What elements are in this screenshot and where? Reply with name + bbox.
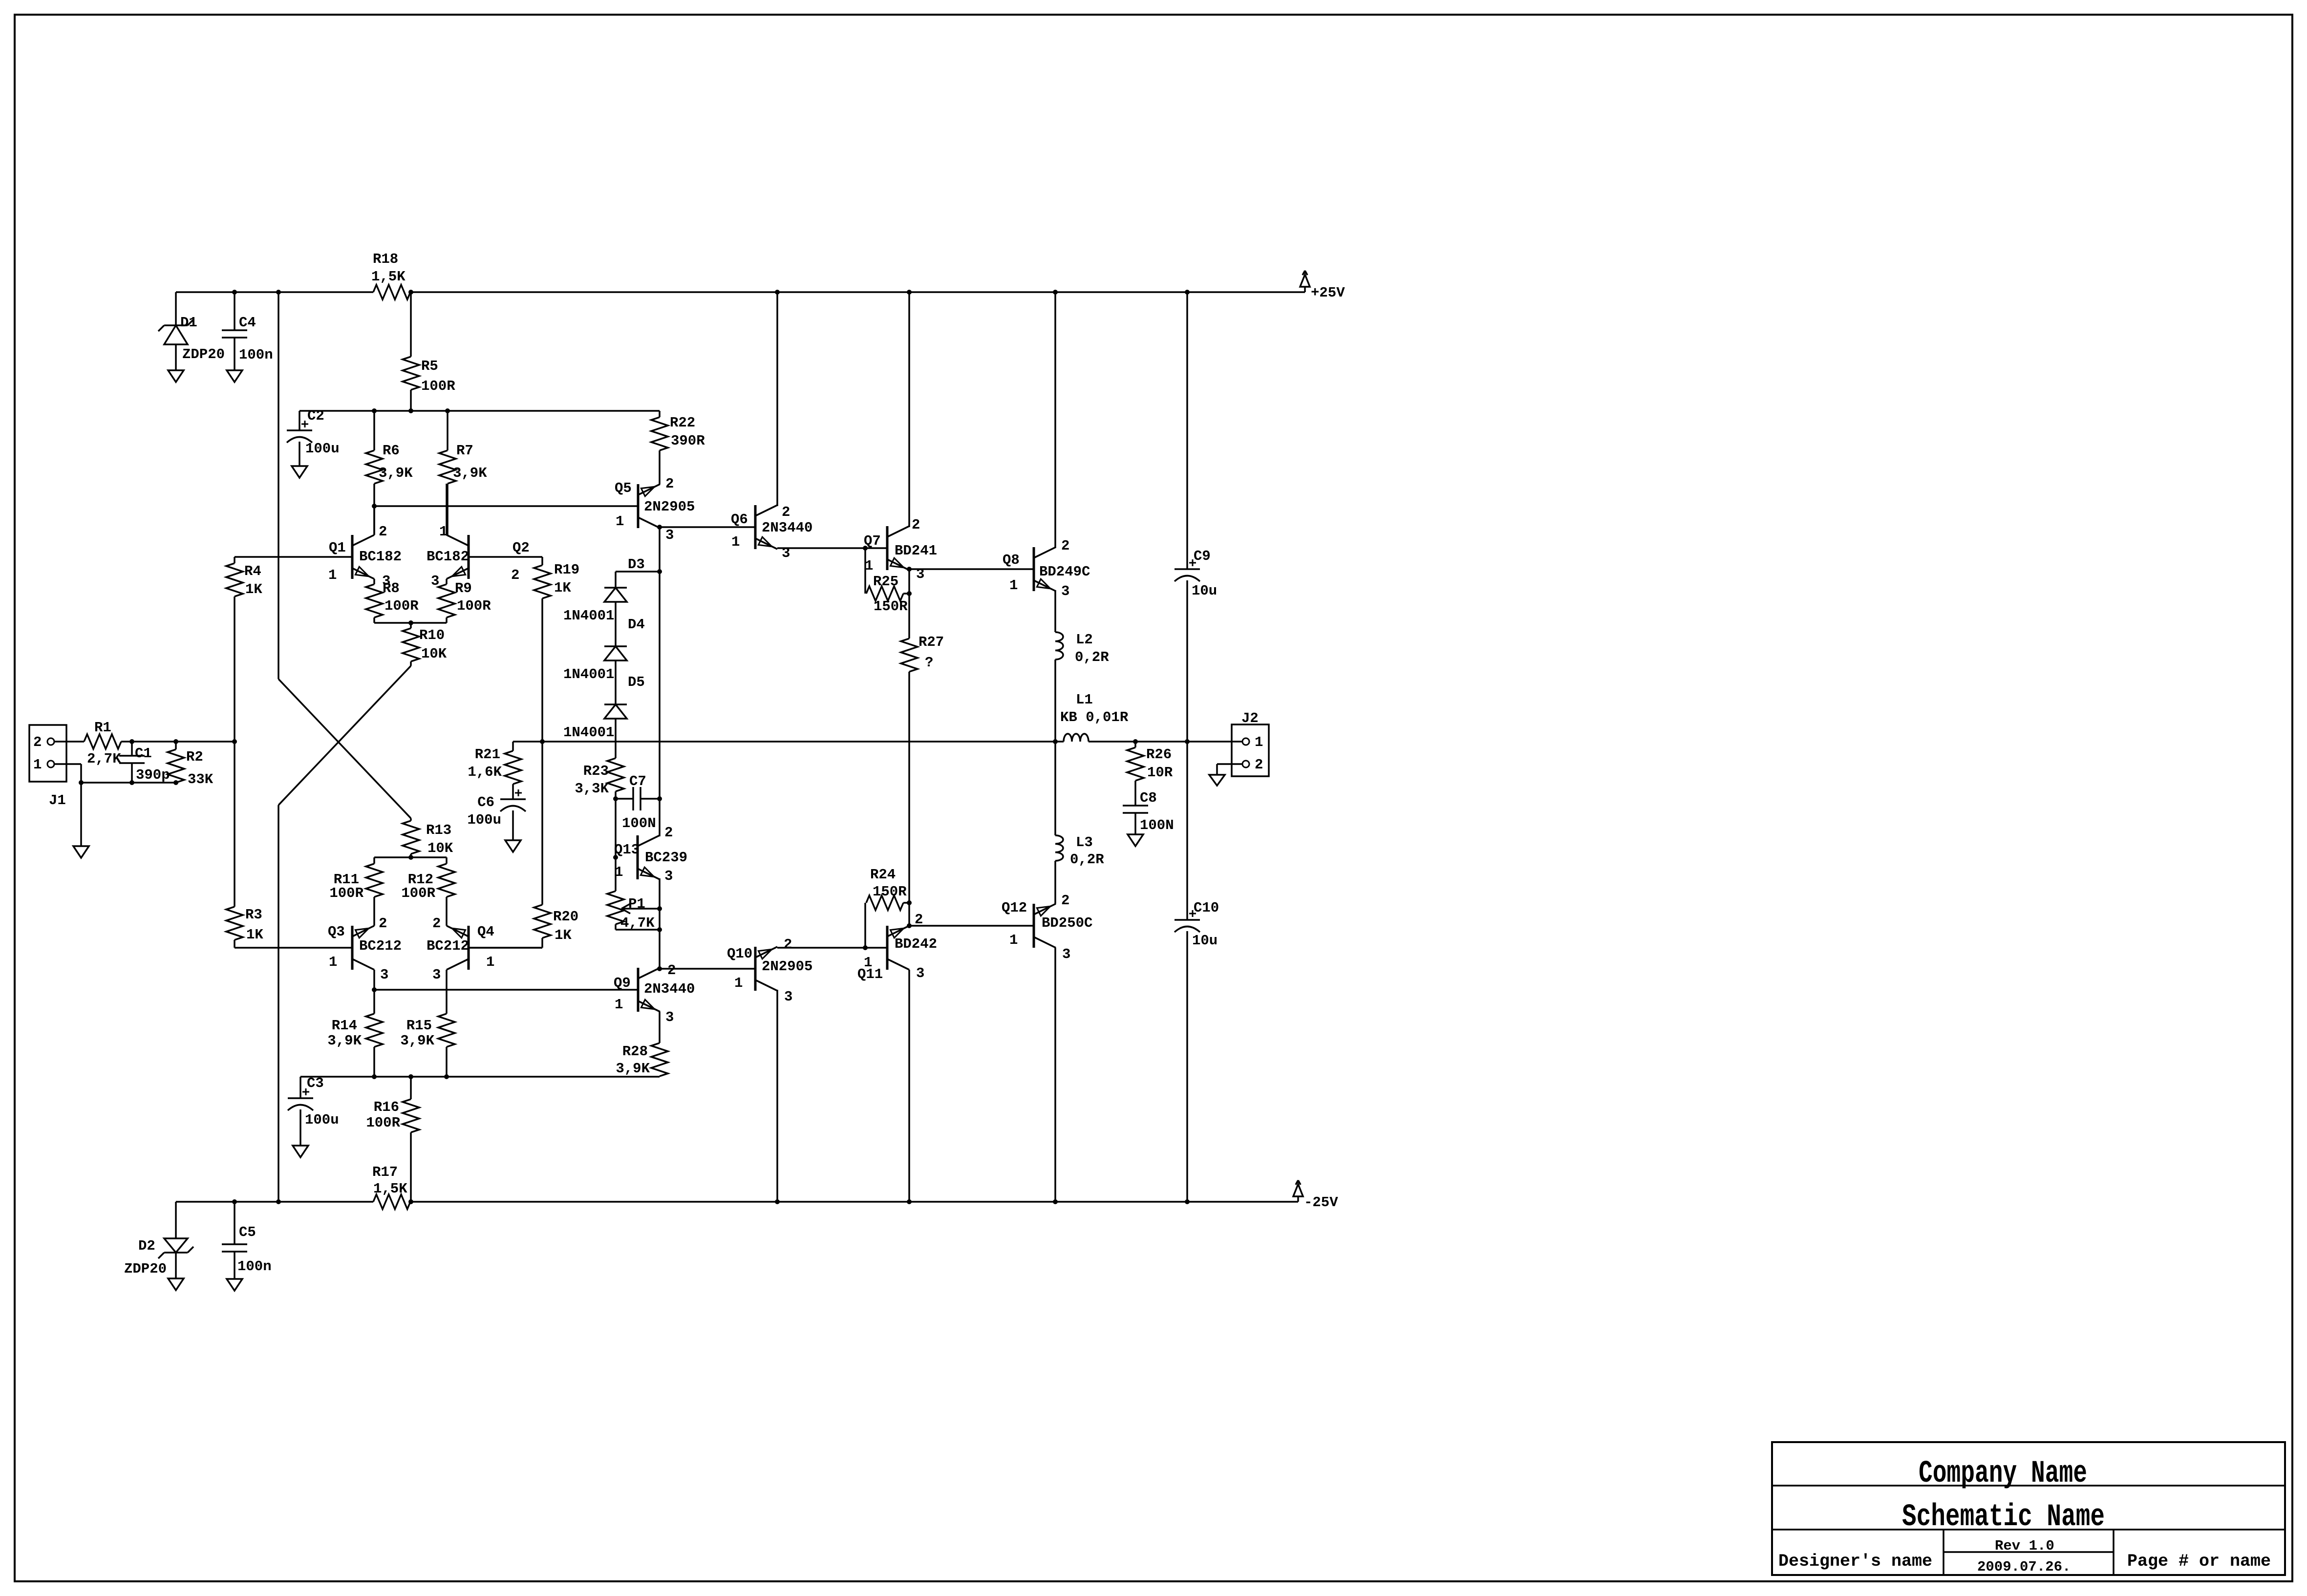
svg-text:1: 1 bbox=[1009, 932, 1018, 948]
svg-text:R28: R28 bbox=[622, 1043, 648, 1060]
svg-text:100N: 100N bbox=[1140, 817, 1174, 833]
transistor Q1 BC182 bbox=[328, 524, 402, 589]
title block frame bbox=[1772, 1442, 2285, 1575]
wire Q5 base bbox=[374, 505, 638, 507]
svg-text:R25: R25 bbox=[873, 574, 898, 590]
svg-text:2: 2 bbox=[1255, 757, 1263, 773]
resistor R22 390R bbox=[651, 411, 705, 484]
wire J1 ground lead bbox=[80, 783, 82, 846]
svg-text:3: 3 bbox=[432, 967, 441, 983]
svg-text:Q1: Q1 bbox=[329, 540, 346, 556]
svg-text:R23: R23 bbox=[583, 763, 609, 779]
wire J2 pin2 ground bbox=[1217, 764, 1242, 775]
ground D2 bbox=[168, 1278, 184, 1290]
svg-text:1: 1 bbox=[615, 997, 623, 1013]
svg-text:3,9K: 3,9K bbox=[453, 465, 487, 481]
svg-text:D5: D5 bbox=[628, 674, 645, 690]
svg-text:BC182: BC182 bbox=[427, 549, 469, 565]
wire output node bbox=[513, 741, 1242, 743]
svg-text:2: 2 bbox=[667, 962, 676, 979]
title date bbox=[1977, 1559, 2071, 1575]
transistor Q5 2N2905 bbox=[615, 476, 695, 543]
wire D4-D5 bbox=[615, 660, 617, 704]
svg-text:1: 1 bbox=[33, 757, 42, 773]
transistor Q2 BC182 bbox=[427, 524, 530, 589]
svg-text:1N4001: 1N4001 bbox=[563, 724, 614, 741]
transistor Q3 BC212 bbox=[328, 915, 402, 983]
svg-text:1K: 1K bbox=[555, 927, 572, 943]
diode D1 ZDP20 bbox=[158, 315, 225, 362]
svg-text:3,9K: 3,9K bbox=[379, 465, 413, 481]
wire Q1 collector lead bbox=[373, 506, 375, 535]
svg-text:2N3440: 2N3440 bbox=[762, 520, 812, 536]
svg-text:R8: R8 bbox=[383, 580, 400, 596]
wire L3 to Q12 emitter bbox=[1054, 861, 1056, 904]
svg-text:ZDP20: ZDP20 bbox=[182, 346, 225, 362]
svg-text:Company Name: Company Name bbox=[1919, 1456, 2087, 1491]
svg-text:2N2905: 2N2905 bbox=[762, 958, 812, 975]
resistor R16 100R bbox=[366, 1077, 419, 1202]
svg-text:390R: 390R bbox=[671, 433, 705, 449]
inductor L1 KB 0,01R bbox=[1060, 692, 1129, 742]
svg-text:100R: 100R bbox=[401, 885, 435, 901]
svg-text:100R: 100R bbox=[421, 378, 455, 394]
svg-text:BC182: BC182 bbox=[359, 549, 402, 565]
wire x570 crossing to -25V rail bbox=[278, 805, 279, 1202]
svg-text:C1: C1 bbox=[135, 745, 152, 762]
wire Q13 collector lead bbox=[659, 799, 661, 836]
svg-text:C10: C10 bbox=[1194, 900, 1219, 916]
svg-text:3,3K: 3,3K bbox=[575, 781, 609, 797]
capacitor C9 10u bbox=[1175, 292, 1217, 742]
svg-text:R21: R21 bbox=[475, 746, 500, 763]
svg-text:-25V: -25V bbox=[1304, 1194, 1338, 1211]
svg-text:2: 2 bbox=[664, 825, 673, 841]
node Q5 base tap bbox=[372, 504, 377, 509]
svg-text:4,7K: 4,7K bbox=[620, 915, 655, 931]
svg-text:R15: R15 bbox=[406, 1018, 432, 1034]
capacitor C7 100N bbox=[616, 773, 662, 831]
ground C4 bbox=[227, 370, 242, 382]
wire P1 wiper bbox=[621, 904, 662, 914]
wire Q6 emitter to Q7 bbox=[777, 546, 887, 551]
resistor R23 3,3K bbox=[575, 758, 624, 799]
svg-text:Q12: Q12 bbox=[1002, 900, 1027, 916]
svg-text:0,2R: 0,2R bbox=[1070, 851, 1104, 868]
capacitor C1 390p bbox=[119, 742, 170, 783]
node Q11 emitter bbox=[907, 923, 1034, 928]
svg-text:L2: L2 bbox=[1076, 632, 1093, 648]
inductor L2 0,2R bbox=[1055, 632, 1109, 665]
svg-text:Q7: Q7 bbox=[864, 533, 881, 549]
transistor Q7 BD241 bbox=[864, 517, 937, 582]
wire R3 to Q3 base bbox=[235, 947, 352, 949]
svg-text:1: 1 bbox=[486, 954, 494, 970]
svg-text:100R: 100R bbox=[329, 885, 363, 901]
title page bbox=[2127, 1552, 2271, 1571]
svg-text:BD241: BD241 bbox=[895, 543, 937, 559]
wire Q11 collector bbox=[908, 970, 910, 1202]
svg-text:3: 3 bbox=[784, 989, 792, 1005]
svg-text:C5: C5 bbox=[239, 1224, 256, 1240]
ground J2 bbox=[1209, 775, 1225, 786]
wire Q3 collector to Q9 base bbox=[374, 989, 638, 991]
svg-text:2N2905: 2N2905 bbox=[644, 499, 695, 515]
svg-text:3: 3 bbox=[916, 965, 924, 981]
ground C8 bbox=[1128, 834, 1143, 846]
wire Q13 base lead bbox=[613, 799, 618, 860]
svg-text:100n: 100n bbox=[237, 1258, 272, 1275]
svg-text:2009.07.26.: 2009.07.26. bbox=[1977, 1559, 2071, 1575]
svg-text:2: 2 bbox=[432, 915, 441, 932]
svg-text:Page # or name: Page # or name bbox=[2127, 1552, 2271, 1571]
resistor R1 2,7K bbox=[84, 720, 121, 767]
svg-text:100u: 100u bbox=[305, 441, 340, 457]
wire Q2 base to R19 bbox=[469, 556, 542, 558]
wire J1 pin2 to R1 bbox=[54, 741, 84, 743]
capacitor C4 100n bbox=[222, 315, 273, 363]
svg-text:BD249C: BD249C bbox=[1039, 564, 1090, 580]
wire Q7 emitter node bbox=[907, 567, 1034, 572]
connector J1 bbox=[29, 725, 66, 809]
node R23-C7 left bbox=[613, 796, 618, 801]
svg-text:D1: D1 bbox=[180, 315, 197, 331]
resistor R18 bbox=[371, 251, 410, 299]
svg-text:Q10: Q10 bbox=[727, 946, 752, 962]
wire Q13 emitter line bbox=[659, 878, 661, 969]
wire bottom bus bbox=[300, 1074, 660, 1079]
capacitor C5 100n bbox=[222, 1202, 272, 1279]
ground D1 bbox=[168, 370, 184, 382]
capacitor C3 100u bbox=[288, 1075, 339, 1146]
svg-text:1: 1 bbox=[1009, 577, 1018, 594]
wire R8-R9 join bbox=[374, 620, 447, 625]
resistor R15 3,9K bbox=[400, 970, 455, 1077]
svg-text:3: 3 bbox=[380, 967, 388, 983]
wire Q10 emitter to Q11 bbox=[777, 945, 887, 950]
svg-text:10K: 10K bbox=[421, 646, 447, 662]
wire D2 lead bbox=[175, 1202, 177, 1278]
title schematic name bbox=[1902, 1500, 2105, 1535]
svg-text:1,5K: 1,5K bbox=[373, 1181, 407, 1197]
svg-text:3,9K: 3,9K bbox=[400, 1033, 434, 1049]
wire Q5 collector node bbox=[657, 525, 755, 530]
svg-text:R19: R19 bbox=[554, 562, 579, 578]
svg-text:2N3440: 2N3440 bbox=[644, 981, 695, 997]
ground J1 bbox=[73, 846, 89, 858]
svg-text:C8: C8 bbox=[1140, 790, 1157, 806]
svg-text:100R: 100R bbox=[457, 598, 491, 614]
svg-text:2,7K: 2,7K bbox=[87, 751, 121, 767]
diode D3 1N4001 bbox=[563, 556, 645, 624]
svg-text:D2: D2 bbox=[138, 1238, 155, 1254]
svg-text:10u: 10u bbox=[1192, 933, 1218, 949]
svg-text:1: 1 bbox=[864, 955, 872, 971]
svg-text:+25V: +25V bbox=[1311, 285, 1345, 301]
resistor R20 1K bbox=[469, 742, 578, 948]
wire +25V rail left segment bbox=[176, 291, 373, 293]
svg-text:C6: C6 bbox=[477, 794, 494, 810]
svg-text:10K: 10K bbox=[427, 840, 453, 856]
wire VAS bus bbox=[299, 408, 660, 413]
svg-text:C3: C3 bbox=[307, 1075, 324, 1091]
svg-text:R13: R13 bbox=[426, 822, 451, 838]
svg-text:?: ? bbox=[925, 655, 933, 671]
svg-text:1: 1 bbox=[731, 534, 740, 550]
svg-text:R9: R9 bbox=[455, 580, 472, 596]
ground C5 bbox=[227, 1279, 242, 1291]
svg-text:BD242: BD242 bbox=[895, 936, 937, 952]
resistor R7 3,9K bbox=[439, 411, 487, 535]
svg-text:C9: C9 bbox=[1194, 548, 1211, 564]
wire C2 lead bbox=[299, 411, 300, 466]
svg-text:10u: 10u bbox=[1192, 583, 1217, 599]
resistor R2 33K bbox=[168, 742, 214, 787]
wire -25V rail left bbox=[176, 1201, 373, 1203]
resistor R11 100R bbox=[329, 857, 383, 926]
node Q9 collector bbox=[657, 966, 755, 971]
resistor R4 1K bbox=[226, 557, 262, 742]
resistor R5 100R bbox=[403, 292, 455, 411]
svg-text:R20: R20 bbox=[553, 909, 578, 925]
ground C6 bbox=[505, 840, 521, 852]
svg-text:R26: R26 bbox=[1146, 746, 1172, 763]
capacitor C8 100N bbox=[1123, 790, 1174, 834]
wire L3 top to output bbox=[1054, 742, 1056, 835]
resistor R21 1,6K bbox=[468, 742, 521, 799]
svg-text:R14: R14 bbox=[332, 1018, 357, 1034]
resistor R12 100R bbox=[401, 857, 455, 926]
wire R27-R24-Q11 vertical bbox=[908, 742, 910, 926]
svg-text:1K: 1K bbox=[554, 580, 571, 596]
svg-text:Q4: Q4 bbox=[477, 924, 494, 940]
capacitor C10 10u bbox=[1175, 742, 1219, 1202]
transistor Q11 BD242 bbox=[857, 912, 937, 982]
svg-text:Q8: Q8 bbox=[1003, 552, 1020, 568]
svg-text:2: 2 bbox=[665, 476, 674, 492]
svg-text:3: 3 bbox=[1062, 946, 1070, 962]
resistor R28 3,9K bbox=[616, 1012, 668, 1077]
resistor R9 100R bbox=[438, 579, 491, 623]
svg-text:D3: D3 bbox=[628, 556, 645, 573]
svg-text:P1: P1 bbox=[628, 896, 645, 912]
svg-text:C4: C4 bbox=[239, 315, 256, 331]
svg-text:Q2: Q2 bbox=[513, 540, 530, 556]
wire Q12 collector bbox=[1054, 948, 1056, 1202]
transistor Q6 2N3440 bbox=[731, 504, 812, 561]
wire Q8 collector bbox=[1054, 292, 1056, 548]
wire Q6 collector bbox=[776, 292, 778, 506]
svg-text:R6: R6 bbox=[383, 443, 400, 459]
svg-text:3: 3 bbox=[1061, 583, 1069, 599]
svg-text:2: 2 bbox=[782, 504, 790, 520]
svg-text:Rev 1.0: Rev 1.0 bbox=[1995, 1538, 2054, 1554]
svg-text:2: 2 bbox=[511, 567, 519, 583]
svg-text:1: 1 bbox=[1255, 734, 1263, 750]
wire -25V rail right bbox=[410, 1201, 1298, 1203]
svg-text:2: 2 bbox=[1061, 538, 1069, 554]
node +25V junction dots bbox=[232, 290, 1190, 295]
wire Q5 collector down bbox=[657, 527, 662, 799]
svg-text:L3: L3 bbox=[1076, 834, 1093, 851]
resistor R26 10R bbox=[1127, 742, 1173, 806]
svg-text:R17: R17 bbox=[372, 1164, 398, 1180]
resistor R25 150R bbox=[866, 574, 912, 615]
svg-text:C7: C7 bbox=[629, 773, 646, 789]
svg-text:33K: 33K bbox=[188, 771, 214, 787]
svg-text:R4: R4 bbox=[244, 563, 261, 579]
svg-text:2: 2 bbox=[912, 517, 920, 533]
svg-text:Q5: Q5 bbox=[615, 480, 632, 496]
wire R10 to crossing diagonal bbox=[278, 666, 411, 805]
wire Q2 collector lead bbox=[446, 484, 448, 535]
svg-text:2: 2 bbox=[379, 524, 387, 540]
svg-text:2: 2 bbox=[379, 915, 387, 932]
wire Q8 emitter to L2 bbox=[1054, 590, 1056, 632]
svg-text:D4: D4 bbox=[628, 617, 645, 633]
svg-text:R1: R1 bbox=[94, 720, 111, 736]
svg-text:Q3: Q3 bbox=[328, 924, 345, 940]
svg-text:100u: 100u bbox=[305, 1112, 339, 1128]
diode D2 ZDP20 bbox=[124, 1238, 193, 1277]
resistor R14 3,9K bbox=[327, 990, 383, 1077]
resistor R17 1,5K bbox=[372, 1164, 410, 1209]
svg-text:3: 3 bbox=[664, 868, 673, 884]
wire +25V rail right segment bbox=[410, 291, 1305, 293]
svg-text:R22: R22 bbox=[670, 415, 695, 431]
svg-text:1: 1 bbox=[734, 975, 743, 991]
svg-text:BC239: BC239 bbox=[645, 850, 687, 866]
svg-text:R16: R16 bbox=[374, 1099, 399, 1115]
svg-text:R24: R24 bbox=[870, 867, 896, 883]
svg-text:1: 1 bbox=[328, 567, 337, 583]
potentiometer P1 4,7K bbox=[607, 857, 662, 932]
svg-text:BC212: BC212 bbox=[359, 938, 402, 954]
svg-text:R18: R18 bbox=[373, 251, 398, 267]
svg-text:150R: 150R bbox=[873, 884, 907, 900]
wire L2 to output bbox=[1054, 660, 1056, 742]
transistor Q12 BD250C bbox=[1002, 893, 1092, 962]
svg-text:R2: R2 bbox=[186, 749, 203, 765]
resistor R13 10K bbox=[403, 818, 453, 857]
svg-text:150R: 150R bbox=[874, 598, 908, 615]
svg-text:1,6K: 1,6K bbox=[468, 764, 502, 780]
node output junctions bbox=[540, 739, 1190, 744]
connector J2 bbox=[1232, 710, 1269, 776]
svg-text:R27: R27 bbox=[919, 634, 944, 650]
svg-text:1K: 1K bbox=[245, 581, 262, 597]
capacitor C2 100u bbox=[287, 408, 340, 457]
wire D3-D4 bbox=[615, 602, 617, 646]
wire Q1 base bbox=[235, 556, 352, 558]
wire D1 lead bbox=[175, 292, 177, 370]
wire diagonal to R13 bbox=[278, 679, 411, 818]
title rev bbox=[1995, 1538, 2054, 1554]
svg-text:R10: R10 bbox=[419, 627, 445, 643]
transistor Q10 2N2905 bbox=[727, 936, 812, 1005]
svg-text:100n: 100n bbox=[239, 347, 273, 363]
svg-text:100N: 100N bbox=[622, 815, 656, 831]
svg-text:BD250C: BD250C bbox=[1042, 915, 1092, 931]
title company name bbox=[1919, 1456, 2087, 1491]
svg-text:1: 1 bbox=[329, 954, 337, 970]
wire D3 top bbox=[616, 572, 660, 588]
wire Q10 collector bbox=[776, 990, 778, 1202]
svg-text:3,9K: 3,9K bbox=[616, 1061, 650, 1077]
resistor R6 3,9K bbox=[366, 411, 413, 535]
svg-text:100u: 100u bbox=[467, 812, 501, 828]
svg-text:2: 2 bbox=[784, 936, 792, 953]
svg-text:J2: J2 bbox=[1241, 710, 1259, 726]
svg-text:R5: R5 bbox=[421, 358, 438, 374]
svg-text:3: 3 bbox=[665, 527, 674, 543]
svg-text:390p: 390p bbox=[136, 767, 170, 783]
wire D5 to R23 bbox=[615, 719, 617, 758]
svg-text:3,9K: 3,9K bbox=[327, 1033, 362, 1049]
svg-text:KB 0,01R: KB 0,01R bbox=[1060, 709, 1129, 725]
svg-text:100R: 100R bbox=[366, 1115, 400, 1131]
wire C4 leads bbox=[234, 292, 235, 370]
svg-text:100R: 100R bbox=[384, 598, 419, 614]
svg-text:10R: 10R bbox=[1147, 765, 1173, 781]
power flag +25V bbox=[1300, 271, 1345, 301]
svg-text:R3: R3 bbox=[245, 907, 262, 923]
transistor Q9 2N3440 bbox=[614, 962, 695, 1025]
svg-text:1K: 1K bbox=[246, 927, 263, 943]
svg-text:2: 2 bbox=[33, 734, 42, 750]
svg-text:R7: R7 bbox=[456, 443, 473, 459]
svg-text:Q6: Q6 bbox=[731, 511, 748, 528]
resistor R24 150R bbox=[865, 867, 912, 948]
inductor L3 0,2R bbox=[1055, 834, 1104, 868]
resistor R10 10K bbox=[403, 623, 447, 666]
diode D5 1N4001 bbox=[563, 674, 645, 741]
svg-text:1N4001: 1N4001 bbox=[563, 666, 614, 682]
svg-text:Q9: Q9 bbox=[614, 975, 631, 991]
wire J1 pin1 bbox=[54, 764, 81, 783]
transistor Q4 BC212 bbox=[427, 915, 494, 983]
svg-text:Q13: Q13 bbox=[614, 842, 640, 858]
wire R25 left lead bbox=[864, 548, 866, 594]
wire x570 from +25V to crossing bbox=[278, 292, 279, 679]
transistor Q13 BC239 bbox=[614, 825, 687, 884]
transistor Q8 BD249C bbox=[1003, 538, 1090, 599]
wire R11-R12 join bbox=[374, 855, 447, 860]
resistor R3 1K bbox=[226, 742, 263, 948]
wire input bottom return bbox=[79, 780, 178, 785]
resistor R8 100R bbox=[366, 579, 419, 623]
svg-text:BC212: BC212 bbox=[427, 938, 469, 954]
resistor R27 ? bbox=[901, 569, 944, 742]
svg-text:L1: L1 bbox=[1076, 692, 1093, 708]
svg-text:2: 2 bbox=[1061, 893, 1069, 909]
svg-text:Schematic Name: Schematic Name bbox=[1902, 1500, 2105, 1535]
svg-text:C2: C2 bbox=[307, 408, 324, 424]
wire Q4 base to R20 bbox=[469, 947, 542, 949]
wire input node bbox=[121, 739, 237, 744]
svg-text:0,2R: 0,2R bbox=[1075, 649, 1109, 665]
svg-text:1N4001: 1N4001 bbox=[563, 608, 614, 624]
resistor R19 1K bbox=[534, 557, 579, 742]
power flag -25V bbox=[1293, 1180, 1338, 1211]
svg-text:J1: J1 bbox=[49, 792, 66, 809]
svg-text:3: 3 bbox=[665, 1009, 674, 1025]
node -25V junction dots bbox=[232, 1199, 1190, 1204]
ground C2 bbox=[292, 466, 307, 478]
svg-text:1,5K: 1,5K bbox=[371, 269, 406, 285]
title designer bbox=[1778, 1552, 1932, 1571]
wire Q7 collector bbox=[908, 292, 910, 527]
